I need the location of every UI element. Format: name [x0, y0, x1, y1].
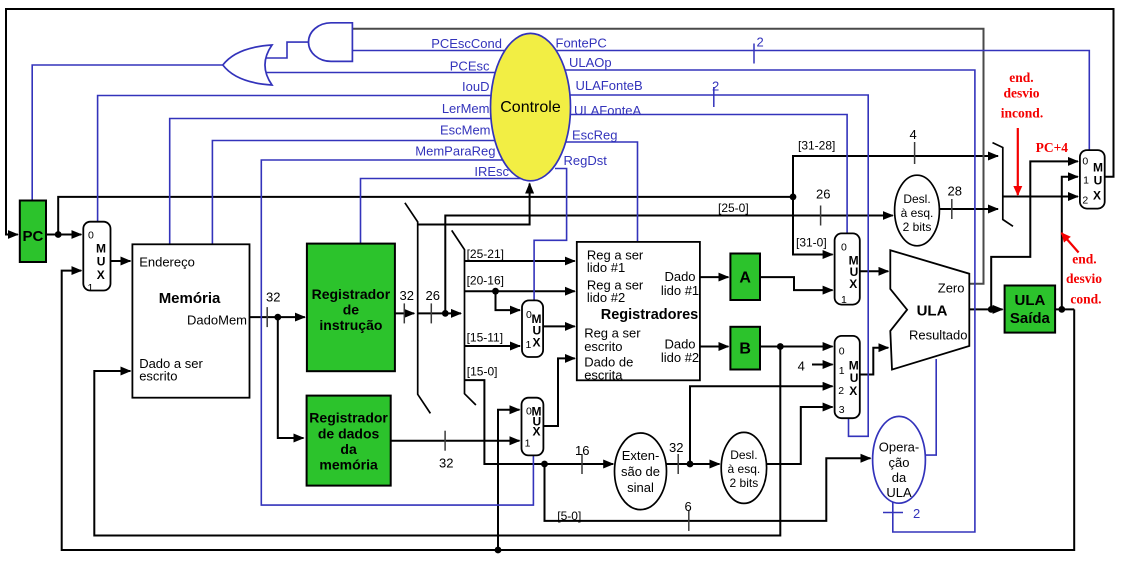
- svg-text:de dados: de dados: [318, 426, 380, 442]
- svg-text:16: 16: [575, 443, 589, 458]
- svg-text:Registradores: Registradores: [601, 307, 699, 323]
- tick: 2 ALU control output: [883, 512, 903, 514]
- svg-text:32: 32: [669, 440, 683, 455]
- svg-text:4: 4: [910, 127, 917, 142]
- wire: MDR output to MemParaReg mux input 1: [391, 440, 520, 442]
- wire: ULAFonteB mux output to ULA input B: [860, 348, 889, 375]
- svg-text:1: 1: [526, 339, 532, 351]
- wire: B register output to ULAFonteB mux input 0: [760, 346, 833, 348]
- svg-text:32: 32: [400, 288, 414, 303]
- svg-text:escrita: escrita: [584, 368, 623, 383]
- svg-text:PCEsc: PCEsc: [450, 59, 490, 74]
- wire: PC output to IouD mux input 0: [46, 234, 81, 236]
- or-gate (left-pointing, PCEsc OR ...): [223, 45, 272, 85]
- wire: sign extend branch to ULAFonteB mux input 2: [690, 386, 833, 464]
- svg-text:incond.: incond.: [1001, 106, 1043, 121]
- wire: FontePC from Controle to PC source mux select: [530, 51, 1089, 150]
- wire: IouD from Controle to IouD mux select: [98, 96, 530, 222]
- wire: PC bus (PC output up and right): [58, 197, 793, 235]
- tick: 2 FontePC: [753, 44, 755, 64]
- svg-text:Dado: Dado: [664, 269, 695, 284]
- svg-text:26: 26: [816, 187, 830, 202]
- shift-left-2 (branch): Desl. a esq. 2 bits ellipse: [721, 432, 766, 503]
- svg-text:1: 1: [88, 282, 94, 294]
- tick: 4 [31-28]: [914, 142, 916, 164]
- bus splitter 1 (instruction fan-out): [405, 203, 431, 414]
- mux MemParaReg: [522, 398, 544, 456]
- svg-text:1: 1: [839, 365, 845, 377]
- svg-text:M: M: [1093, 161, 1103, 175]
- svg-text:0: 0: [88, 230, 94, 242]
- svg-text:[25-0]: [25-0]: [718, 201, 749, 215]
- register A (green): [730, 254, 760, 301]
- wire: ULASaida output to PC source mux input 1 (end. desvio cond.): [1055, 308, 1074, 310]
- register PC (green): [20, 201, 46, 263]
- wire: jump address to PC source mux input 2: [1003, 196, 1078, 198]
- annotation arrow: end. desvio cond.: [1062, 233, 1079, 253]
- wire: [15-0] to sign extend: [465, 380, 614, 464]
- wire: EscReg from Controle to Registradores write enable: [530, 142, 638, 242]
- svg-text:Desl.: Desl.: [903, 192, 930, 206]
- svg-text:Zero: Zero: [938, 281, 965, 296]
- wire: ULAOp from Controle to ALU control: [530, 70, 975, 532]
- wire: [25-0] bus to shift-left-2 (jump): [445, 216, 893, 314]
- svg-text:LerMem: LerMem: [442, 101, 490, 116]
- svg-text:2 bits: 2 bits: [903, 220, 932, 234]
- wire: sign extend output to shift-left-2 (branch): [666, 463, 719, 465]
- mux ULAFonteB: [835, 336, 860, 418]
- node: funct tap junction: [541, 461, 548, 468]
- svg-text:X: X: [849, 277, 857, 291]
- svg-text:X: X: [1093, 189, 1101, 203]
- svg-text:Endereço: Endereço: [139, 255, 195, 270]
- wire: IREsc from Controle to IR write enable: [361, 179, 531, 244]
- svg-text:[25-21]: [25-21]: [467, 247, 504, 261]
- svg-text:2: 2: [913, 506, 920, 521]
- wire: opcode [31-26] to Controle: [418, 184, 530, 225]
- wire: shift-left-2 (jump) output to concatenator: [939, 208, 998, 210]
- wire: ULAFonteB from Controle to ULAFonteB mux select: [530, 95, 868, 436]
- svg-text:32: 32: [266, 290, 280, 305]
- wire: IouD mux output to Memoria Endereco: [111, 260, 131, 262]
- svg-text:EscReg: EscReg: [572, 128, 618, 143]
- svg-text:32: 32: [439, 456, 453, 471]
- svg-text:ULA: ULA: [886, 485, 912, 500]
- wire: [20-16] to Reg a ser lido 2: [465, 290, 575, 292]
- wire: instruction 26-bit tap to bus splitter 2: [418, 312, 461, 314]
- svg-text:lido #1: lido #1: [587, 260, 625, 275]
- wire: ULA Resultado to ULASaida: [969, 308, 1002, 310]
- register file: Registradores: [577, 242, 700, 380]
- svg-text:[5-0]: [5-0]: [557, 509, 581, 523]
- svg-text:sinal: sinal: [627, 480, 654, 495]
- wire: ALU control output to ULA: [920, 359, 936, 455]
- svg-text:X: X: [97, 268, 105, 282]
- mux ULAFonteA: [835, 233, 860, 304]
- svg-text:à esq.: à esq.: [901, 206, 934, 220]
- svg-text:Resultado: Resultado: [909, 328, 968, 343]
- svg-text:end.: end.: [1072, 251, 1096, 266]
- wire: bottom feedback line from ULASaida to IouD mux input 1: [62, 271, 1074, 550]
- svg-text:6: 6: [685, 499, 692, 514]
- svg-text:Controle: Controle: [500, 99, 561, 116]
- wire: PCEscCond from Controle to AND gate: [352, 50, 530, 52]
- svg-text:à esq.: à esq.: [728, 462, 761, 476]
- svg-text:Saída: Saída: [1010, 310, 1051, 327]
- svg-text:U: U: [97, 255, 106, 269]
- wire: LerMem from Controle to Memoria: [170, 119, 530, 244]
- svg-text:[31-0]: [31-0]: [796, 236, 827, 250]
- memory block: Memoria: [132, 244, 249, 397]
- tick: 6 funct: [688, 511, 690, 531]
- svg-text:M: M: [96, 242, 106, 256]
- node: B output junction: [777, 343, 784, 350]
- svg-text:memória: memória: [319, 457, 378, 473]
- svg-text:lido #2: lido #2: [661, 350, 699, 365]
- tick: 26 fanout: [430, 303, 432, 323]
- wire: Memoria DadoMem output to Registrador de instrucao: [250, 316, 305, 318]
- svg-text:2 bits: 2 bits: [730, 476, 759, 490]
- tick: 32 MDR output: [444, 431, 446, 451]
- and-gate (left-pointing, PCEscCond AND Zero): [309, 23, 353, 62]
- node: [20-16] junction: [492, 288, 499, 295]
- svg-text:Opera-: Opera-: [879, 440, 919, 455]
- svg-text:Registrador: Registrador: [309, 410, 388, 426]
- sign-extend: Extensao de sinal ellipse: [615, 433, 667, 510]
- svg-text:RegDst: RegDst: [564, 153, 608, 168]
- node: ULASaida output junction: [1058, 306, 1065, 313]
- svg-text:PCEscCond: PCEscCond: [431, 36, 502, 51]
- node: 26-bit tap junction: [442, 310, 449, 317]
- wire: PC+4 to PC source mux input 0: [991, 161, 1078, 309]
- svg-text:DadoMem: DadoMem: [187, 313, 247, 328]
- wire: RegDst from Controle to RegDst mux select: [534, 169, 567, 301]
- node: PC output junction: [55, 231, 62, 238]
- svg-text:IouD: IouD: [462, 79, 489, 94]
- register B (green): [730, 327, 760, 370]
- svg-text:U: U: [1094, 174, 1103, 188]
- mux FontePC (PC source): [1080, 150, 1105, 209]
- svg-text:X: X: [533, 335, 541, 349]
- svg-text:Desl.: Desl.: [730, 448, 757, 462]
- svg-text:X: X: [533, 425, 541, 439]
- svg-text:28: 28: [948, 184, 962, 199]
- svg-text:0: 0: [839, 345, 845, 357]
- svg-text:instrução: instrução: [319, 317, 382, 333]
- svg-text:da: da: [892, 470, 907, 485]
- mux RegDst: [522, 300, 543, 357]
- wire: [25-21] to Reg a ser lido 1: [465, 260, 575, 262]
- svg-text:PC: PC: [22, 228, 43, 245]
- register MDR: Registrador de dados da memoria (green): [307, 396, 391, 486]
- svg-text:[20-16]: [20-16]: [467, 274, 504, 288]
- node: Resultado junction (PC+4 tap): [988, 306, 995, 313]
- node: DadoMem junction: [274, 314, 281, 321]
- svg-text:4: 4: [798, 359, 805, 374]
- wire: Dado lido 2 to B register: [700, 346, 729, 348]
- wire: funct [5-0] to ALU control: [545, 458, 871, 521]
- wire: IR output to bus splitter 1: [395, 312, 414, 314]
- shift-left-2 (jump): Desl. a esq. 2 bits ellipse: [895, 175, 940, 246]
- svg-text:2: 2: [1082, 194, 1088, 206]
- svg-text:B: B: [739, 341, 751, 358]
- mux IouD: [83, 222, 110, 291]
- svg-text:MemParaReg: MemParaReg: [415, 144, 495, 159]
- svg-text:desvio: desvio: [1003, 86, 1039, 101]
- register ULASaida (green): [1005, 286, 1056, 333]
- svg-text:ULAFonteB: ULAFonteB: [576, 78, 643, 93]
- wire: B register write-data line to Memoria Dado a ser escrito: [94, 347, 780, 536]
- svg-text:2: 2: [757, 35, 764, 50]
- wire: DadoMem branch down to MDR input: [278, 317, 304, 438]
- svg-text:Registrador: Registrador: [312, 286, 391, 302]
- wire: MemParaReg from Controle to MemParaReg mux select: [261, 160, 533, 505]
- svg-text:lido #2: lido #2: [587, 290, 625, 305]
- svg-text:ULAFonteA: ULAFonteA: [574, 103, 642, 118]
- wire: MemParaReg mux output to Dado de escrita: [543, 358, 574, 426]
- wire: AND gate output to OR gate input: [264, 42, 310, 58]
- tick: 26 [25-0]: [820, 206, 822, 226]
- wire: bottom line riser to MemParaReg mux input 0: [498, 410, 520, 550]
- svg-text:0: 0: [1082, 155, 1088, 167]
- wire: ULAFonteA from Controle to ULAFonteA mux select: [530, 115, 847, 234]
- svg-text:de: de: [343, 302, 360, 318]
- node: PC bus junction at x=793: [790, 194, 797, 201]
- svg-text:ULAOp: ULAOp: [569, 55, 612, 70]
- tick: 2 ULAFonteB: [713, 87, 715, 107]
- wire: branch target riser: [1062, 177, 1078, 310]
- wire: constant 4 to ULAFonteB mux input 1: [812, 364, 833, 366]
- svg-text:[15-11]: [15-11]: [467, 331, 503, 345]
- svg-text:end.: end.: [1009, 70, 1033, 85]
- alu U2: ULA: [890, 250, 969, 369]
- annotation arrow: end. desvio incond.: [1017, 128, 1019, 195]
- wire: [20-16] branch to RegDst mux input 0: [496, 291, 521, 310]
- node: sign extend output junction: [687, 461, 694, 468]
- ALU control: Operacao da ULA ellipse: [873, 416, 926, 503]
- svg-text:desvio: desvio: [1066, 271, 1102, 286]
- bus splitter 2 (register fields fan-out): [452, 230, 476, 405]
- wire: PC[31-28] to concatenator: [793, 156, 998, 197]
- wire: ULAFonteA mux output to ULA input A: [860, 270, 889, 272]
- svg-text:Memória: Memória: [159, 290, 221, 307]
- wire: [15-11] to RegDst mux input 1: [465, 345, 521, 347]
- wire: RegDst mux output to Reg a ser escrito: [543, 325, 575, 327]
- svg-text:FontePC: FontePC: [556, 36, 607, 51]
- tick: 32 DadoMem: [266, 307, 268, 327]
- wire: PCEsc from Controle to OR gate: [264, 72, 530, 74]
- tick: 16 sign-extend input: [581, 454, 583, 474]
- register IR: Registrador de instrucao (green): [307, 244, 395, 372]
- svg-text:lido #1: lido #1: [661, 283, 699, 298]
- svg-text:IREsc: IREsc: [474, 164, 509, 179]
- svg-text:ção: ção: [889, 455, 910, 470]
- svg-text:ULA: ULA: [917, 303, 948, 320]
- svg-text:cond.: cond.: [1070, 291, 1101, 306]
- svg-text:escrito: escrito: [584, 339, 622, 354]
- svg-text:PC+4: PC+4: [1036, 140, 1069, 155]
- svg-text:3: 3: [839, 404, 845, 416]
- controller U1: Controle ellipse: [491, 33, 571, 180]
- wire: A register output to ULAFonteA mux input 1: [760, 277, 833, 290]
- tick: 32 sign-extend output: [677, 454, 679, 474]
- svg-text:são de: são de: [621, 464, 660, 479]
- concatenator (jump address merge): [993, 143, 1014, 227]
- wire: PC source mux output loop to PC input: [6, 9, 1114, 235]
- svg-text:A: A: [739, 270, 751, 287]
- svg-text:26: 26: [426, 288, 440, 303]
- svg-text:[15-0]: [15-0]: [467, 365, 498, 379]
- tick: 28 shifter output: [951, 199, 953, 219]
- tick: 32 IR output: [403, 303, 405, 323]
- wire: Zero feedback from ULA to AND gate: [352, 29, 983, 284]
- svg-text:2: 2: [712, 79, 719, 94]
- wire: EscMem from Controle to Memoria: [212, 141, 530, 244]
- svg-text:1: 1: [841, 294, 847, 306]
- svg-text:2: 2: [838, 385, 844, 397]
- wire: OR gate output to PC write enable: [32, 65, 223, 200]
- svg-text:EscMem: EscMem: [440, 123, 491, 138]
- svg-text:escrito: escrito: [139, 369, 177, 384]
- svg-text:ULA: ULA: [1014, 292, 1045, 309]
- wire: Dado lido 1 to A register: [700, 276, 729, 278]
- svg-text:0: 0: [841, 242, 847, 254]
- node: bottom line junction: [495, 547, 502, 554]
- svg-text:X: X: [849, 384, 857, 398]
- svg-text:da: da: [340, 441, 357, 457]
- wire: shift-left-2 output to ULAFonteB mux input 3: [767, 407, 833, 464]
- wire: PC[31-0] to ULAFonteA mux input 0: [793, 197, 833, 255]
- svg-text:1: 1: [525, 437, 531, 449]
- svg-text:1: 1: [1083, 175, 1089, 187]
- svg-text:[31-28]: [31-28]: [798, 139, 835, 153]
- svg-text:Exten-: Exten-: [622, 448, 660, 463]
